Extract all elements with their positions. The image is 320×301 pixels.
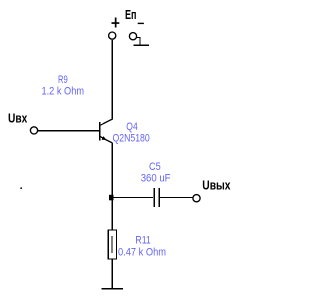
svg-text:R9: R9 [58,74,68,86]
svg-text:Q2N5180: Q2N5180 [113,132,150,144]
svg-text:Uвх: Uвх [8,111,28,126]
svg-text:C5: C5 [149,161,161,173]
svg-text:R11: R11 [135,235,150,247]
svg-text:Еп: Еп [125,7,137,22]
svg-text:Uвых: Uвых [202,178,231,193]
svg-text:1.2 k Ohm: 1.2 k Ohm [42,86,85,98]
svg-text:360 uF: 360 uF [141,173,171,185]
svg-text:0.47 k Ohm: 0.47 k Ohm [118,246,166,258]
